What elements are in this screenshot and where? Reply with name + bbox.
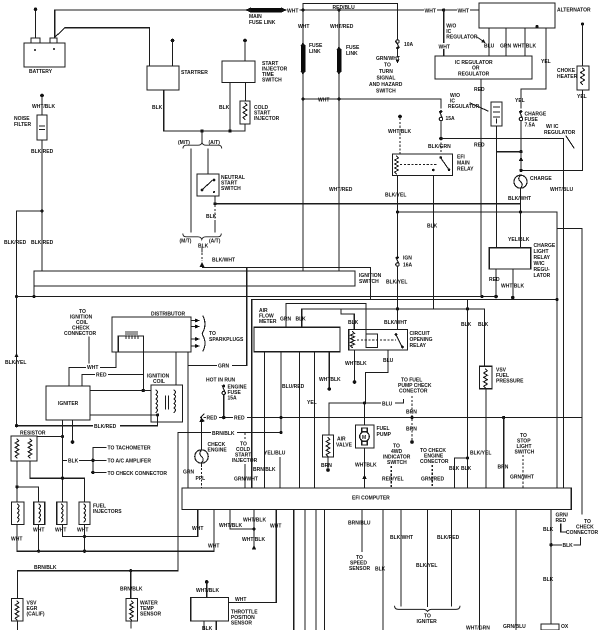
svg-text:SWITCH: SWITCH [376,89,396,95]
svg-text:RED: RED [234,416,245,422]
wire AFM GRN pin [280,303,366,334]
node accessory connector bracket [91,445,167,477]
svg-text:WHT/BLK: WHT/BLK [196,588,219,594]
svg-text:WHT/RED: WHT/RED [329,187,353,193]
wire starter/switch common BLK bus [164,129,245,132]
wire time switch feed terminal [243,39,247,61]
wire igniter to coil negative [90,414,158,416]
svg-text:LATOR: LATOR [534,273,551,279]
svg-text:WHT: WHT [287,9,298,15]
svg-text:REGULATOR: REGULATOR [446,35,478,41]
svg-text:FILTER: FILTER [14,122,32,128]
wire starter ground BLK [152,90,164,131]
svg-text:GRN: GRN [183,470,195,476]
noise filter [14,94,55,211]
wire AFM output pins [253,352,341,488]
wire resistor outputs to injectors [15,461,84,502]
wire injector bus WHT upper [63,510,204,537]
wire EFI outputs left [294,510,325,630]
svg-text:WHT/BLK: WHT/BLK [32,104,55,110]
wire ignition ST BLK/WHT [203,258,371,300]
node TO 4WD INDICATOR SWITCH [382,444,411,489]
wire distributor to coil link [175,352,177,385]
svg-text:SWITCH: SWITCH [221,186,241,192]
svg-text:WHT: WHT [192,526,203,532]
svg-text:BLK: BLK [198,244,209,250]
svg-text:WHTBLK: WHTBLK [345,361,367,367]
svg-text:WHTBLK: WHTBLK [319,377,341,383]
svg-text:BLU/RED: BLU/RED [282,384,305,390]
svg-text:WHT/RED: WHT/RED [330,24,354,30]
svg-text:SENSOR: SENSOR [140,612,162,618]
svg-text:GRN/WHT: GRN/WHT [234,477,258,483]
svg-text:GRN/RED: GRN/RED [421,477,444,483]
svg-text:WHT/BLK: WHT/BLK [242,537,265,543]
water temp sensor [126,599,162,629]
svg-text:SENSOR: SENSOR [349,566,371,572]
svg-text:BRN: BRN [406,427,417,433]
wire M/T branch [190,149,192,232]
fuse 15A EFI main relay [428,110,455,154]
svg-text:BLK: BLK [461,466,472,472]
svg-text:SWITCH: SWITCH [387,460,407,466]
svg-text:WHT/BLK: WHT/BLK [513,44,536,50]
svg-text:PPL: PPL [196,476,206,482]
svg-text:TURN: TURN [379,69,393,75]
wire AFM BLK pin [296,307,489,366]
svg-text:TO A/C AMPLIFER: TO A/C AMPLIFER [108,458,152,464]
battery [24,38,65,75]
svg-text:BRN/BLK: BRN/BLK [34,565,57,571]
wire EFI main relay output BLK [427,176,438,309]
ignition switch [34,271,382,297]
svg-text:SIGNAL: SIGNAL [377,76,396,82]
svg-text:BLK/WHT: BLK/WHT [212,258,235,264]
start injector time switch [222,61,288,84]
svg-text:YEL: YEL [307,400,317,406]
distributor [112,312,191,353]
wire charge light relay WHT/BLK pin [501,269,524,299]
wire COR relay BLU output [366,350,394,403]
wire GRN/WHT to turn signal [369,50,403,95]
wire igniter ground pins [61,420,74,502]
svg-text:ENGINE: ENGINE [208,448,228,454]
wire RED/BLU top feed [303,4,398,40]
svg-text:RED: RED [489,277,500,283]
wire alternator pins BLU GRN WHT/BLK [484,28,536,56]
svg-text:BLK/RED: BLK/RED [437,535,460,541]
svg-text:EFI COMPUTER: EFI COMPUTER [352,496,390,502]
wire charge light relay RED pin [489,269,500,298]
node lower M/T A/T merge brace [180,234,222,250]
svg-text:SWITCH: SWITCH [515,450,535,456]
svg-text:WHT: WHT [77,528,88,534]
svg-text:BLK/WHT: BLK/WHT [390,535,413,541]
wire alternator YEL to charge fuse [515,28,551,108]
svg-text:WHT/BLU: WHT/BLU [550,187,573,193]
svg-text:INJECTOR: INJECTOR [232,458,258,464]
svg-text:WHT: WHT [425,9,436,15]
svg-text:CONNECTOR: CONNECTOR [64,331,97,337]
wire injector bus WHT lower [17,510,219,552]
svg-text:(A/T): (A/T) [209,239,221,245]
fuse IGN 16A [384,212,413,330]
svg-text:VALVE: VALVE [336,443,353,449]
svg-text:BLK/YEL: BLK/YEL [386,280,407,286]
svg-text:SWITCH: SWITCH [359,279,379,285]
svg-text:OX: OX [561,624,569,630]
svg-text:BLK: BLK [427,224,438,230]
wire BLK/RED to igniter [437,510,460,606]
EFI main relay [393,154,475,176]
wire NSS BLK to charge lamp [215,203,521,205]
starter [147,66,208,90]
svg-text:WHT/BLK: WHT/BLK [243,518,266,524]
svg-text:16A: 16A [403,263,413,269]
svg-text:PRESSURE: PRESSURE [496,379,524,385]
svg-text:RED: RED [207,416,218,422]
svg-text:7.5A: 7.5A [525,123,536,129]
wire GRN/RED to ox sensor [543,510,581,625]
throttle position sensor [191,510,282,630]
svg-text:BLK/RED: BLK/RED [94,424,117,430]
svg-text:GRN/WHT: GRN/WHT [510,475,534,481]
resistor W/O IC regulator [448,93,521,248]
svg-text:WHT: WHT [270,523,281,529]
svg-text:WHT: WHT [318,98,329,104]
wire igniter RED [82,371,143,386]
svg-text:COIL: COIL [153,379,165,385]
svg-text:WHT: WHT [33,528,44,534]
wire WHT distribution bus y99 [301,97,441,108]
svg-text:BLK: BLK [296,317,307,323]
svg-text:BLK/RED: BLK/RED [4,240,27,246]
wire battery negative terminal stub [34,8,38,39]
svg-text:GRN: GRN [280,317,292,323]
svg-text:BLK: BLK [543,527,554,533]
svg-text:15A: 15A [228,396,238,402]
svg-text:(CALIF): (CALIF) [27,612,45,618]
svg-text:BATTERY: BATTERY [29,69,53,75]
svg-text:BLK: BLK [152,105,163,111]
EFI computer [182,488,571,510]
node TO COLD START INJECTOR stub [232,433,258,488]
node WHT/BLK connector to EFI main relay [388,115,411,154]
neutral start switch [197,174,245,196]
svg-text:BRN/BLK: BRN/BLK [212,431,235,437]
wire IG bus y299 [252,298,559,488]
svg-text:LINK: LINK [346,51,358,57]
node M/T A/T split brace [178,131,222,149]
wire EFI relay feed y139 to WHT/BLU [441,139,573,489]
wire A/T branch [207,149,209,174]
svg-text:HEATER: HEATER [557,74,578,80]
svg-text:BLK: BLK [206,214,217,220]
check engine lamp [195,442,228,463]
wire time switch BLK to junction [219,83,230,132]
fuse link 2 [329,8,360,271]
wire coil BLK/RED [15,415,158,430]
wire BLK sensor ground pair [449,299,472,488]
label W/O IC REGULATOR (upper) [446,24,485,44]
svg-text:RELAY: RELAY [457,167,474,173]
svg-text:BLU: BLU [383,358,394,364]
fuse 10A turn signal [396,40,414,50]
label TO IGNITION COIL CHECK CONNECTOR [64,309,97,367]
wire BLK/WHT to igniter [390,510,413,606]
wire check engine PPL pin [196,463,206,488]
svg-text:STARTRER: STARTRER [181,70,208,76]
svg-text:WHT: WHT [458,9,469,15]
charge light relay [489,212,556,279]
svg-text:IGN: IGN [403,256,412,262]
wire GRN distributor to EFI [183,365,195,488]
resistor block [11,431,63,462]
choke heater [519,22,589,172]
svg-text:BLU: BLU [382,401,393,407]
main fuse link MFL [245,7,287,26]
svg-text:BLK: BLK [348,320,359,326]
svg-text:BLK: BLK [68,459,79,465]
svg-text:(A/T): (A/T) [209,140,221,146]
label HOT IN RUN engine fuse [206,378,247,418]
wire distributor spark outputs [191,316,244,351]
fuel pump [355,403,392,488]
svg-text:M: M [362,435,366,441]
svg-text:YEL/BLU: YEL/BLU [264,451,286,457]
svg-text:SWITCH: SWITCH [262,78,282,84]
svg-text:RED: RED [474,87,485,93]
svg-text:BLK/YEL: BLK/YEL [416,563,437,569]
svg-text:BLK: BLK [478,322,489,328]
wire YEL/BLU AFM pin to EFI [264,451,286,489]
fuel injectors [12,502,123,525]
svg-text:BLK: BLK [449,466,460,472]
svg-text:CONNECTOR: CONNECTOR [566,530,599,536]
node TO CHECK ENGINE CONECTOR [420,448,449,488]
svg-text:GRN: GRN [500,44,512,50]
wire battery positive to main fuse link (WHT feed) [55,7,479,37]
wire WHT/GRN output [466,510,490,630]
charge lamp [508,175,552,212]
air valve [321,403,353,472]
wire BLU fuel pump feed [329,400,404,408]
wire IC regulator RED output [474,79,485,297]
svg-text:WHT: WHT [235,597,246,603]
circuit opening relay [349,330,433,351]
wire ignition ACC bus y212 [396,210,582,488]
wire GRN distributor to AFM [188,267,247,369]
wire COR relay WHTBLK ground [345,350,367,384]
svg-text:GRN: GRN [218,364,230,370]
svg-text:BLK/RED: BLK/RED [31,149,54,155]
wire main accessory bus y296 [17,295,498,298]
svg-text:BLU: BLU [484,44,495,50]
svg-text:RED: RED [474,143,485,149]
air flow meter [254,308,340,352]
ox sensor [541,624,569,630]
svg-text:PUMP: PUMP [377,432,392,438]
wire WHT feed to IC regulator [438,8,451,56]
node TO IGNITER brace [395,606,461,625]
svg-text:CONECTOR: CONECTOR [399,389,428,395]
svg-text:FUSE LINK: FUSE LINK [249,20,276,26]
wire RED ignition run bus [201,414,582,422]
alternator [479,3,591,28]
svg-text:SPARKPLUGS: SPARKPLUGS [209,337,244,343]
node TO STOP LIGHT SWITCH [510,433,535,488]
svg-text:HOT IN RUN: HOT IN RUN [206,378,236,384]
VSV fuel pressure [470,366,524,488]
wire GRN/BLU output [503,510,526,630]
wire BLK/RED left drop [4,209,54,296]
wire check engine lamp feed [199,418,203,450]
svg-text:BRN: BRN [321,463,332,469]
wire battery positive to starter [54,28,149,66]
svg-text:BLK/WHT: BLK/WHT [508,196,531,202]
svg-text:WHT: WHT [87,365,98,371]
svg-text:RED/BLU: RED/BLU [333,5,356,11]
VSV EGR [12,599,45,630]
svg-text:TO CHECK CONNECTOR: TO CHECK CONNECTOR [108,471,168,477]
wire injector returns WHT [11,525,88,553]
svg-text:BRN: BRN [406,410,417,416]
svg-text:IGNITER: IGNITER [58,401,79,407]
wire BLK/YEL to igniter [416,510,437,607]
node TO CHECK CONNECTOR right [566,519,599,536]
charge fuse 7.5A [519,110,547,170]
label W/ IC REGULATOR [544,124,576,148]
IC regulator box [435,56,532,79]
svg-text:AND HAZARD: AND HAZARD [369,82,403,88]
svg-text:BLK/GRN: BLK/GRN [428,144,451,150]
wire igniter WHT [69,352,116,386]
svg-text:YEL: YEL [515,98,525,104]
svg-text:WHT: WHT [298,24,309,30]
svg-text:15A: 15A [446,116,456,122]
svg-text:WHT/BLK: WHT/BLK [219,523,242,529]
svg-text:BLK: BLK [375,567,386,573]
svg-text:CONECTOR: CONECTOR [420,459,449,465]
igniter [46,386,90,420]
svg-text:TO: TO [384,63,391,69]
svg-text:BLK/YEL: BLK/YEL [5,360,26,366]
svg-text:REGULATOR: REGULATOR [544,130,576,136]
svg-text:YEL: YEL [541,59,551,65]
svg-text:SENSOR: SENSOR [231,621,253,627]
wire BLK/YEL igniter feed [5,295,26,426]
svg-text:WHT/BLK: WHT/BLK [501,284,524,290]
svg-text:BRN/BLK: BRN/BLK [120,587,143,593]
svg-text:ALTERNATOR: ALTERNATOR [557,8,591,14]
wire starter feed terminal [171,39,175,66]
svg-text:WHTBLK: WHTBLK [355,463,377,469]
svg-text:(M/T): (M/T) [180,239,192,245]
wire NSS output BLK [206,196,217,232]
svg-text:(M/T): (M/T) [178,140,190,146]
svg-text:BLK: BLK [461,322,472,328]
svg-text:BLK: BLK [202,626,213,630]
wire BLK EFI ground [375,510,386,630]
svg-text:BLK: BLK [219,105,230,111]
wire choke/check branch x582 [581,228,583,514]
svg-text:REGULATOR: REGULATOR [458,72,490,78]
wire WHT/BLK sensor pins [219,510,266,550]
svg-text:INJECTORS: INJECTORS [93,509,122,515]
svg-text:BRN/BLU: BRN/BLU [348,521,371,527]
svg-text:LINK: LINK [309,49,321,55]
svg-text:BRN: BRN [498,465,509,471]
wire BRN EFI pin [498,418,509,489]
wire BRN/BLK sensor ground bus [18,433,178,599]
fuse link 1 [298,8,323,271]
svg-text:BRN/BLK: BRN/BLK [253,467,276,473]
svg-text:RED: RED [556,518,567,524]
svg-text:METER: METER [259,319,277,325]
wire distributor pickup to igniter/coil [90,352,151,392]
node TO FUEL PUMP CHECK CONECTOR [398,378,432,444]
svg-text:RED/YEL: RED/YEL [382,477,404,483]
wire BLK dashed to ignition feed arrow [200,248,205,267]
svg-text:WHT: WHT [439,45,450,51]
wire BRN/BLK check engine bus [178,430,283,437]
svg-text:YEL/BLK: YEL/BLK [508,237,530,243]
svg-text:BLK: BLK [543,577,554,583]
svg-text:BLK/YEL: BLK/YEL [470,451,491,457]
wire EFI main relay BLK/YEL output [385,176,406,213]
cold start injector [240,83,280,132]
wire BLK tap to accessory connectors [63,457,93,465]
svg-text:TO TACHOMETER: TO TACHOMETER [108,445,152,451]
svg-text:10A: 10A [404,42,414,48]
svg-text:WHT: WHT [11,537,22,543]
svg-text:WHT: WHT [208,544,219,550]
svg-text:YEL: YEL [577,94,587,100]
svg-text:GRN/BLU: GRN/BLU [503,624,526,630]
svg-text:BLK/WHT: BLK/WHT [384,320,407,326]
svg-text:WHT: WHT [55,528,66,534]
svg-text:RED: RED [96,373,107,379]
svg-text:INJECTOR: INJECTOR [254,116,280,122]
svg-text:WHT/GRN: WHT/GRN [466,626,490,630]
wire BRN/BLU speed sensor [348,510,371,573]
svg-text:IGNITER: IGNITER [417,619,438,625]
svg-text:CHARGE: CHARGE [530,176,552,182]
ignition coil [147,374,183,423]
svg-text:RELAY: RELAY [410,343,427,349]
svg-text:BLK/YEL: BLK/YEL [385,193,406,199]
svg-text:BLK: BLK [563,543,574,549]
